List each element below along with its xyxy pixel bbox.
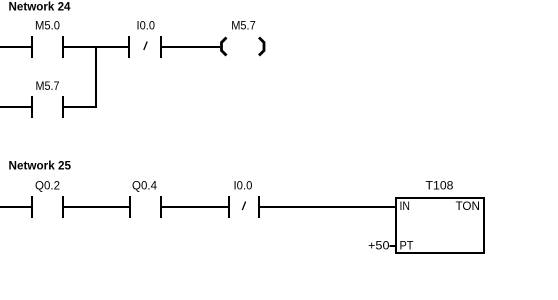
contact M5.7 branch	[32, 96, 63, 118]
contact Q0.4	[130, 196, 161, 218]
svg-text:I0.0: I0.0	[234, 179, 253, 193]
coil M5.7	[222, 38, 265, 56]
wire I0.0 to timer box	[260, 206, 396, 208]
svg-text:Q0.2: Q0.2	[35, 179, 60, 193]
wire Q0.2 to Q0.4	[64, 206, 129, 208]
svg-text:Network 24: Network 24	[9, 0, 71, 13]
svg-text:T108: T108	[426, 179, 454, 193]
wire left rail to contact Q0.2	[0, 206, 31, 208]
wire Q0.4 to I0.0	[162, 206, 228, 208]
wire I0.0 to coil	[162, 46, 220, 48]
timer box T108	[396, 198, 484, 253]
svg-text:+50: +50	[368, 239, 390, 253]
svg-text:M5.7: M5.7	[36, 79, 60, 93]
svg-text:IN: IN	[400, 199, 411, 213]
svg-text:M5.7: M5.7	[231, 19, 256, 33]
svg-text:PT: PT	[400, 239, 415, 253]
contact Q0.2	[32, 196, 63, 218]
vertical junction wire	[95, 46, 97, 108]
svg-text:M5.0: M5.0	[35, 19, 60, 33]
svg-text:Q0.4: Q0.4	[132, 179, 157, 193]
NC contact I0.0 network 25	[229, 196, 259, 218]
NC contact I0.0	[129, 36, 161, 58]
svg-text:TON: TON	[456, 199, 481, 213]
svg-text:Network 25: Network 25	[9, 159, 72, 173]
contact M5.0	[32, 36, 63, 58]
branch wire left rail to contact M5.7	[0, 106, 31, 108]
wire left rail to contact M5.0	[0, 46, 31, 48]
wire M5.0 to I0.0	[64, 46, 128, 48]
branch wire M5.7 to junction	[64, 106, 97, 108]
wire stub +50 to PT	[390, 245, 397, 247]
svg-text:I0.0: I0.0	[137, 19, 156, 33]
